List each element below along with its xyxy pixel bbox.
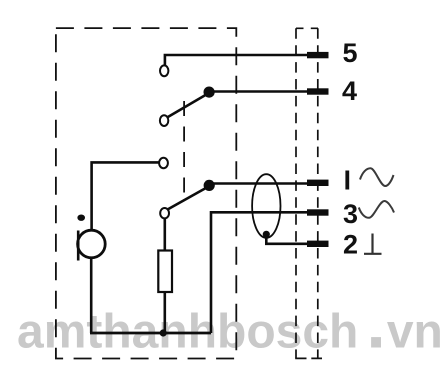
bottom rail wire xyxy=(90,332,211,335)
svg-text:4: 4 xyxy=(342,76,357,106)
wire resistor to rail xyxy=(164,292,167,333)
switch arm S1 xyxy=(167,95,206,118)
wire mic to contact xyxy=(92,162,159,229)
wire pin1 xyxy=(209,182,307,185)
connector strip bottom dashed edge xyxy=(295,357,322,359)
shield junction dot xyxy=(263,231,270,238)
switch pole dot (pin4) xyxy=(204,87,215,98)
switch pole dot (pin1) xyxy=(204,180,215,191)
microphone diaphragm bar xyxy=(77,231,80,261)
switch contact S1a xyxy=(160,65,168,76)
svg-text:2: 2 xyxy=(343,229,358,259)
sine symbol pin 1 xyxy=(360,168,394,186)
connector strip left dashed line xyxy=(295,28,297,358)
wire pin3 xyxy=(211,212,307,333)
terminal bar pin 3 xyxy=(307,209,329,215)
terminal bar pin 1 xyxy=(307,180,329,186)
terminal bar pin 5 xyxy=(307,52,329,58)
connector strip right dashed line xyxy=(317,28,319,358)
switch arm S2 xyxy=(168,189,206,210)
switch contact S2a (to microphone) xyxy=(159,158,168,168)
connector strip top dashed edge xyxy=(296,27,318,29)
switch contact S2b (to resistor) xyxy=(160,208,169,218)
wire mic bottom xyxy=(90,258,93,333)
ground symbol pin 2 xyxy=(364,234,382,254)
wire pin2 xyxy=(266,234,307,244)
cable ellipse xyxy=(252,174,280,238)
terminal bar pin 2 xyxy=(307,241,329,247)
terminal bar pin 4 xyxy=(307,88,329,94)
wire contact to resistor xyxy=(164,219,167,251)
junction dot bottom rail xyxy=(160,329,167,336)
wire pin5 xyxy=(165,55,307,66)
microphone dot xyxy=(77,215,85,221)
wire pin4 xyxy=(209,90,307,93)
label 1 xyxy=(345,171,349,190)
sine symbol pin 3 xyxy=(359,201,394,218)
resistor R1 xyxy=(158,251,172,293)
microphone capsule M1 xyxy=(78,230,106,258)
svg-text:5: 5 xyxy=(342,38,357,68)
ganged switch link (dashed) xyxy=(183,101,185,193)
switch contact S1b xyxy=(160,115,168,126)
microphone housing dashed box xyxy=(56,28,236,358)
svg-text:3: 3 xyxy=(343,199,358,229)
